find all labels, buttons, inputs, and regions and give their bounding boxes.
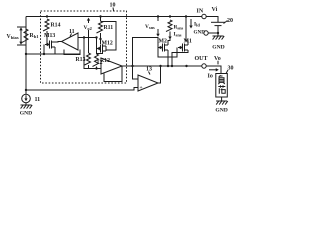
wire op-amp 13 output riser <box>158 66 161 83</box>
svg-text:GND: GND <box>212 45 224 51</box>
IC block 10 dashed boundary <box>41 11 127 83</box>
wire gate bus M2-M1 <box>158 48 177 58</box>
svg-text:30: 30 <box>228 66 234 72</box>
wire M13 source down <box>54 47 56 54</box>
svg-text:Vi: Vi <box>212 7 218 13</box>
wire left rail corner down <box>25 17 27 91</box>
wire rail to M1 drain <box>186 17 188 46</box>
wire op-amp 12 output to OUT line <box>122 65 202 67</box>
junction Rsns top <box>169 15 171 17</box>
ground (current source) <box>21 104 32 106</box>
wire bottom rail <box>26 88 138 91</box>
svg-text:Vo: Vo <box>214 56 221 62</box>
resistor R11 <box>97 21 103 33</box>
svg-text:OUT: OUT <box>195 56 208 62</box>
svg-text:11: 11 <box>69 29 75 35</box>
wire M2 source down to OUT line <box>167 50 169 66</box>
annotation Vbias arrow <box>17 26 26 28</box>
transistor M1 <box>182 44 184 52</box>
wire op-amp 12 feedback <box>104 66 122 82</box>
svg-text:10: 10 <box>110 3 116 9</box>
transistor M2 <box>162 44 164 52</box>
wire M12 right stubs join <box>105 46 107 51</box>
ground (load) <box>216 100 227 102</box>
svg-text:Vo2: Vo2 <box>84 25 92 31</box>
wire amp13 positive input riser <box>133 66 139 79</box>
resistor Rsns <box>166 20 172 31</box>
svg-text:Ild: Ild <box>194 22 200 28</box>
svg-text:M13: M13 <box>44 33 55 39</box>
junction bias node <box>25 53 27 55</box>
resistor R13 <box>85 53 91 65</box>
annotation Io arrow <box>209 69 217 71</box>
terminal OUT <box>202 64 206 68</box>
annotation Vsns <box>157 15 159 17</box>
junction M1 drain top <box>185 15 187 17</box>
svg-text:R14: R14 <box>51 23 61 29</box>
wire load to ground <box>221 97 223 101</box>
svg-text:GND: GND <box>20 111 32 117</box>
svg-text:Rsns: Rsns <box>174 25 184 31</box>
transistor M12 <box>100 45 102 53</box>
wire M12 source to R12 top <box>97 53 103 54</box>
junction left bottom <box>25 89 27 91</box>
svg-text:Vsns: Vsns <box>145 24 155 30</box>
current source I1 <box>22 94 31 103</box>
ground (battery) <box>217 33 219 36</box>
op-amp 12 <box>101 58 122 74</box>
load kanji FU (load) <box>218 75 224 84</box>
resistor R12 <box>93 54 99 66</box>
svg-text:R11: R11 <box>104 25 114 31</box>
resistor R14 <box>43 19 49 31</box>
wire M1 source down to OUT line <box>172 50 188 66</box>
wire op-amp 11 input <box>78 37 97 39</box>
junction R11 top <box>99 15 101 17</box>
wire M13 gate node down to bias wire <box>43 45 45 55</box>
svg-text:GND: GND <box>215 108 227 114</box>
wire input B down to R12 <box>96 38 98 55</box>
transistor M13 <box>49 41 51 49</box>
wire OUT to load <box>206 66 221 74</box>
svg-text:GND: GND <box>194 30 206 36</box>
wire gate drive riser <box>133 38 159 67</box>
junction input wire B <box>95 36 97 38</box>
load block 30 <box>216 74 228 98</box>
junction battery-gnd <box>217 32 219 34</box>
annotation Vo2 arrow <box>87 18 90 21</box>
wire R14 to M13 gate <box>46 31 48 45</box>
resistor Rb1 <box>22 29 28 43</box>
junction R14 top <box>46 15 48 17</box>
wire R11 to M12 <box>100 33 102 44</box>
wire R12 bottom <box>96 67 98 69</box>
load kanji KA (load) <box>218 85 225 93</box>
wire M12 drain loop to R11 top <box>101 22 117 51</box>
terminal IN <box>202 14 206 18</box>
annotation Isns arrow <box>169 32 171 42</box>
wire top supply rail <box>26 16 202 18</box>
wire M13 drain to opamp output <box>55 41 62 44</box>
annotation Ild arrow <box>190 19 192 27</box>
svg-text:11: 11 <box>35 97 41 103</box>
wire op-amp 11 feedback loop <box>64 50 80 55</box>
wire bias node to opamp 11 <box>26 53 80 55</box>
svg-text:Isns: Isns <box>174 32 182 38</box>
svg-text:+: + <box>140 85 143 91</box>
svg-text:Rb1: Rb1 <box>30 33 40 39</box>
wire IN to battery corner <box>206 17 218 23</box>
op-amp 13 <box>138 75 158 91</box>
junction input wire A <box>83 36 85 38</box>
wire rail to R11 <box>100 17 102 22</box>
op-amp 11 <box>62 33 79 50</box>
wire inputs bus into op-amp 12 <box>84 38 101 69</box>
wire Rsns to M2 drain <box>168 41 170 46</box>
terminal GND pin <box>204 31 208 35</box>
svg-text:Vbias: Vbias <box>7 34 19 40</box>
svg-text:Io: Io <box>208 74 213 80</box>
battery 20 (input source Vi) <box>211 21 225 23</box>
junction gate drive <box>131 65 133 67</box>
wire Vo2 node down to R13 <box>88 30 90 53</box>
wire GND pin to ground node <box>208 32 218 34</box>
svg-text:IN: IN <box>197 9 204 15</box>
svg-text:12: 12 <box>97 60 103 66</box>
svg-text:20: 20 <box>227 18 233 24</box>
wire R13 bottom <box>88 65 90 69</box>
